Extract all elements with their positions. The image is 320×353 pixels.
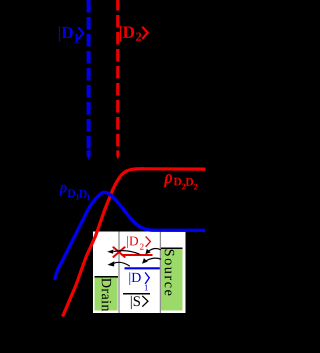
curve rho_D2D2 (red sigmoid) [63,169,206,317]
red dashed line arrow tip [116,150,119,159]
label |S> inset (black) [131,296,148,309]
dashed level marker D2 (red vertical dashed line) [116,0,119,147]
level D1 (blue line) [125,267,160,269]
right tunnel barrier line [159,232,161,314]
blue dashed line arrow tip [87,150,91,160]
source label (rotated) [165,250,175,296]
drain electrode (green) [95,278,118,311]
left tunnel barrier line [118,232,120,314]
level S (black line) [123,293,150,295]
arrow D1 to drain [108,261,130,266]
arrow source to D2 [145,249,161,255]
drain electrode cap (black) [95,276,119,278]
label rho_D2D2 (red) [164,174,197,189]
inset white box [93,232,186,314]
dashed level marker D1 (blue vertical dashed line) [87,0,91,149]
label rho_D1D1 (blue) [59,185,90,201]
drain label (rotated) [102,278,112,311]
label |D2> inset (red) [127,236,150,250]
label |D2> top (red) [120,26,148,42]
source electrode (green) [161,249,183,310]
source electrode cap (black) [161,248,183,250]
red X (blocked decay) [113,247,124,257]
level D2 (red line) [122,254,153,256]
curve rho_D1D1 (blue bump) [55,192,206,280]
label |D1> top (blue) [59,26,83,42]
label |D1> inset (blue) [129,272,149,290]
arrow source to D1 [142,258,161,264]
arrow D2 to drain (blocked) [107,250,139,255]
